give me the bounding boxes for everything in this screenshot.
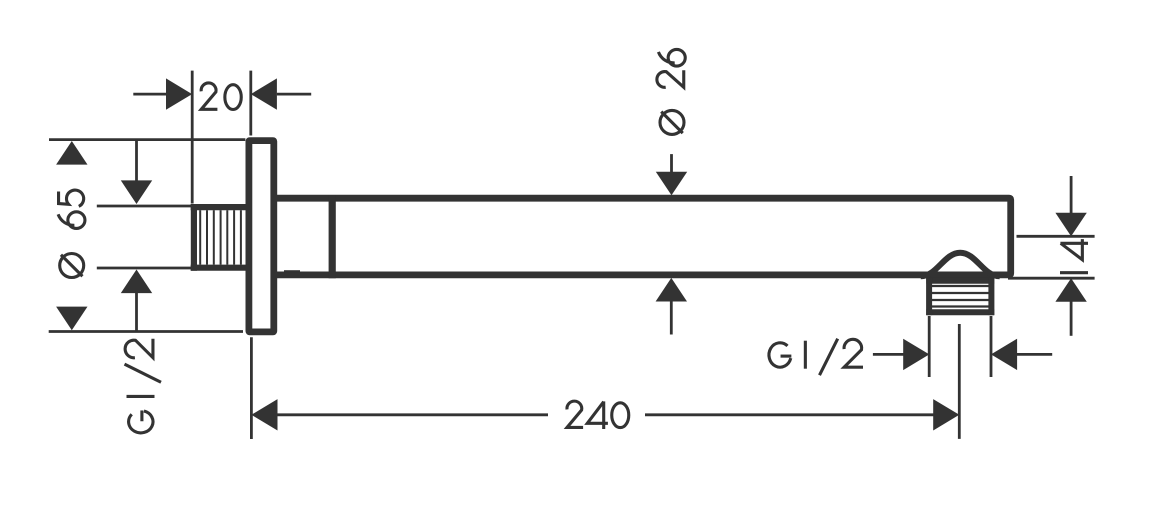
dim O26: lower stub xyxy=(670,301,673,335)
outlet thread bottom border xyxy=(926,309,994,315)
arm collar joint line xyxy=(329,195,336,278)
outlet center extension line xyxy=(958,324,961,439)
label G1/2 right xyxy=(769,339,863,376)
seam tick on arm bottom xyxy=(284,270,300,272)
dim O26: lower arrowhead xyxy=(656,278,687,302)
wall thread body bottom border xyxy=(191,265,249,271)
label G1/2 left xyxy=(125,339,162,433)
dim O26: upper arrowhead xyxy=(656,172,687,196)
dim 20: left extension line xyxy=(191,71,194,204)
dim G1/2 right: left arrowhead xyxy=(903,339,929,370)
dim 240: right arrowhead xyxy=(933,399,959,430)
dim O26: stub xyxy=(670,154,673,173)
outlet thread left border xyxy=(926,278,932,315)
outlet thread hatch lines xyxy=(932,286,989,307)
label 14 xyxy=(1060,239,1088,273)
wall thread hatch lines xyxy=(200,210,241,264)
label 20 xyxy=(201,83,241,110)
dim G1/2 right: right arrowhead xyxy=(991,339,1017,370)
label 240 xyxy=(567,401,629,429)
dim G1/2 left: upper arrowhead xyxy=(121,180,152,204)
dim O65: bottom extension line xyxy=(49,330,243,333)
dim 14: lower arrowhead xyxy=(1055,278,1086,302)
dim G1/2 left: thread top edge extension xyxy=(97,205,192,208)
dim 240: left extension line xyxy=(250,337,253,439)
outlet thread left extension line xyxy=(928,316,931,377)
wall thread body top border xyxy=(191,204,249,210)
label diameter 26 xyxy=(657,49,685,134)
dim G1/2 left: upper stub xyxy=(135,140,138,181)
outlet thread right border xyxy=(988,278,994,315)
dim 14: lower stub xyxy=(1070,301,1073,336)
dim G1/2 right: left tail xyxy=(873,353,904,356)
label diameter 65 xyxy=(58,190,85,277)
dim G1/2 left: lower arrowhead xyxy=(121,270,152,294)
dim 14: upper stub xyxy=(1070,176,1073,213)
dim 240: line left segment xyxy=(277,413,548,416)
dim O65: top arrowhead xyxy=(56,141,87,165)
arm outline xyxy=(277,198,1011,275)
dim 14: lower extension line xyxy=(1008,277,1095,280)
dim 20: right tail xyxy=(277,93,311,96)
dim 20: left tail xyxy=(133,93,166,96)
dim O65: top extension line xyxy=(49,138,245,141)
dim 240: left arrowhead xyxy=(251,399,277,430)
flange (wall plate) xyxy=(249,141,274,332)
outlet dome xyxy=(921,253,1000,277)
outlet thread top border xyxy=(926,278,994,284)
dim 20: right extension line xyxy=(249,71,252,136)
dim 20: right arrowhead xyxy=(251,78,277,109)
wall thread body left border xyxy=(191,204,197,271)
dim 14: upper arrowhead xyxy=(1055,213,1086,237)
dim 20: left arrowhead xyxy=(166,78,192,109)
dim 240: line right segment xyxy=(645,413,934,416)
dim G1/2 left: thread bottom edge extension xyxy=(97,267,192,270)
dim 14: upper extension line xyxy=(1017,235,1095,238)
dim G1/2 left: lower stub xyxy=(135,293,138,332)
dim G1/2 right: right tail xyxy=(1017,353,1053,356)
outlet thread right extension line xyxy=(990,316,993,377)
dim O65: bottom arrowhead xyxy=(56,307,87,331)
